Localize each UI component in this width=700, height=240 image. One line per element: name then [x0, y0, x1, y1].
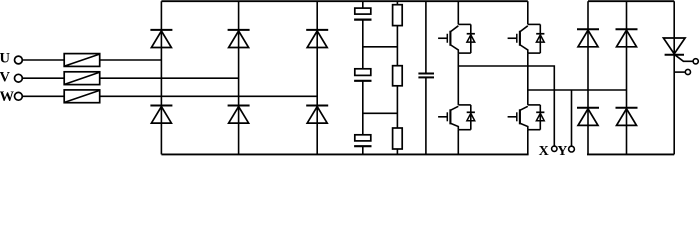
wire output bridge leg 1 — [587, 1, 589, 154]
diode VD6 (lower) — [306, 106, 328, 124]
wire output bridge top rail — [588, 0, 674, 2]
fuse FU3 — [64, 90, 100, 103]
wire V terminal to fuse — [22, 77, 64, 79]
wire rectifier leg 1 — [160, 1, 162, 154]
terminal U — [0, 50, 22, 66]
wire emitter bar V1 — [458, 52, 471, 54]
wire rectifier leg 2 — [238, 1, 240, 154]
wire V fuse to bridge leg — [100, 77, 239, 79]
diode VD5 (lower) — [228, 106, 250, 124]
wire W fuse to bridge leg — [100, 95, 318, 97]
diode VD7 (upper) — [577, 29, 599, 47]
wire node 2 to Y — [571, 90, 573, 146]
wire resistor chain — [396, 1, 398, 154]
diode VD4 (lower) — [150, 106, 172, 124]
diode VD8 (upper) — [616, 29, 638, 47]
diode antiparallel of V2 — [536, 24, 544, 53]
svg-text:V: V — [0, 69, 11, 85]
terminal gate — [693, 59, 698, 64]
wire emitter bar V2 — [528, 52, 541, 54]
wire filter capacitor branch — [425, 1, 427, 154]
capacitor C3 (electrolytic) — [354, 135, 371, 146]
wire positive DC rail (top) — [161, 0, 527, 2]
svg-text:W: W — [0, 89, 15, 105]
transistor V4 (IGBT) — [508, 106, 528, 129]
terminal V — [0, 69, 22, 85]
terminal Y — [557, 144, 574, 159]
wire negative DC rail (bottom) — [161, 153, 528, 155]
capacitor C4 (DC bus) — [418, 74, 434, 78]
transistor V2 (IGBT) — [508, 26, 528, 53]
wire cathode control lead — [674, 71, 685, 73]
wire collector bar V4 — [528, 104, 541, 106]
wire H-bridge output node 1 to X — [458, 66, 554, 146]
terminal X — [539, 144, 557, 159]
wire rectifier leg 3 — [316, 1, 318, 154]
diode VD2 (upper) — [228, 30, 250, 48]
wire collector bar V3 — [458, 104, 471, 106]
diode VD10 (lower) — [616, 108, 638, 126]
wire U terminal to fuse — [22, 59, 64, 61]
capacitor C2 (electrolytic) — [354, 69, 371, 81]
wire link cap/resistor junction 2 — [363, 112, 398, 114]
diode antiparallel of V3 — [467, 105, 475, 130]
fuse FU2 — [64, 72, 100, 85]
terminal W — [0, 89, 22, 105]
wire thyristor gate lead — [675, 55, 693, 61]
svg-text:X: X — [539, 144, 549, 158]
diode VD3 (upper) — [306, 30, 328, 48]
thyristor VS — [663, 38, 685, 55]
wire output bridge bottom rail — [587, 153, 674, 155]
wire W terminal to fuse — [22, 95, 64, 97]
resistor R3 — [393, 128, 403, 149]
wire emitter bar V3 — [458, 129, 471, 131]
diode antiparallel of V4 — [536, 105, 544, 130]
diode VD9 (lower) — [577, 108, 599, 126]
svg-text:U: U — [0, 50, 11, 66]
wire link cap/resistor junction 1 — [363, 46, 398, 48]
wire emitter bar V4 — [528, 129, 541, 131]
wire collector bar V2 — [528, 23, 541, 25]
resistor R1 — [393, 5, 403, 26]
wire inverter left leg — [457, 1, 459, 154]
wire thyristor branch — [673, 1, 675, 154]
terminal cathode control — [685, 69, 690, 74]
diode antiparallel of V1 — [467, 24, 475, 53]
transistor V1 (IGBT) — [438, 26, 458, 53]
diode VD1 (upper) — [150, 30, 172, 48]
svg-text:Y: Y — [557, 144, 567, 158]
wire H-bridge output node 2 — [528, 89, 627, 91]
resistor R2 — [393, 66, 403, 86]
fuse FU1 — [64, 54, 100, 67]
wire collector bar V1 — [458, 23, 471, 25]
wire inverter right leg — [527, 1, 529, 154]
wire output bridge leg 2 — [626, 1, 628, 154]
wire U fuse to bridge leg — [100, 59, 162, 61]
capacitor C1 (electrolytic) — [354, 8, 371, 20]
transistor V3 (IGBT) — [438, 106, 458, 129]
wire capacitor chain — [362, 1, 364, 154]
